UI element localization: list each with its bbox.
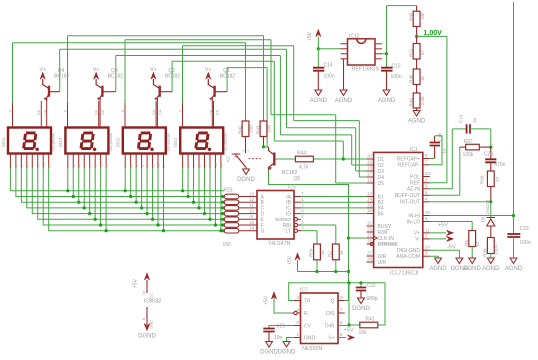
DIS3 segment pin 1 [89, 154, 91, 169]
wire Q2 collector to display pin [156, 101, 158, 128]
node 1.00V [415, 35, 418, 38]
R23 element 2 [221, 201, 224, 204]
wire Q2 base line [172, 60, 274, 62]
resistor R5 10 [469, 231, 476, 247]
capacitor C21 10n [269, 326, 294, 329]
DIS4 segment pin 1 [31, 154, 33, 169]
svg-text:12: 12 [249, 197, 254, 202]
IC1 pin 28 U/R [367, 261, 374, 263]
svg-text:CA: CA [95, 110, 99, 116]
node Q5 collector junction [262, 145, 265, 148]
IC7 pin 3 Q [338, 300, 345, 302]
resistor R43 150 [263, 36, 265, 121]
svg-text:7: 7 [67, 165, 71, 167]
svg-text:2: 2 [140, 165, 144, 167]
svg-text:9: 9 [36, 165, 40, 167]
svg-text:-5V: -5V [447, 245, 456, 251]
svg-text:680p: 680p [367, 296, 378, 302]
wire segment bus line 7 start [43, 168, 224, 225]
svg-text:AGND: AGND [505, 266, 523, 272]
IC IC1 ICL7135CJI [374, 152, 423, 267]
ground DGND of IC5G$2 [144, 324, 150, 331]
svg-text:DGND: DGND [237, 177, 255, 183]
DIS2 segment pin 1 [146, 154, 148, 169]
IC7 pin 4 R [292, 312, 294, 314]
DIS4 top-left pin stub [12, 103, 14, 128]
svg-text:100n: 100n [520, 240, 531, 246]
svg-text:AZ-IN: AZ-IN [407, 187, 420, 193]
R23 element 4 [221, 212, 224, 215]
IC5 output pin 4 [294, 218, 297, 221]
svg-text:1k: 1k [320, 249, 325, 255]
DIS2 segment pin 4 [135, 154, 137, 169]
IC12 pin stub [341, 53, 348, 55]
svg-text:7: 7 [124, 165, 128, 167]
R23 element 1 [221, 195, 224, 198]
DIS1 segment pin 2 [198, 154, 200, 169]
resistor R36 1k [416, 59, 418, 69]
resistor R22 47 [416, 36, 418, 43]
DIS4 common-anode top pin stub [40, 101, 42, 128]
IC1 pin 25 R/W [367, 231, 374, 233]
svg-text:15: 15 [367, 202, 372, 207]
svg-text:9: 9 [178, 110, 182, 112]
svg-text:R5: R5 [464, 240, 469, 246]
svg-text:GND: GND [150, 320, 154, 329]
wire Q4 base line [60, 48, 287, 50]
wire segment bus line 4 start [27, 168, 224, 208]
svg-text:1u: 1u [472, 117, 477, 123]
svg-text:10: 10 [42, 163, 46, 167]
wire IN-LO to R5 [430, 221, 472, 223]
svg-text:+5V: +5V [307, 31, 313, 41]
svg-text:100K: 100K [494, 243, 499, 255]
IC1 pin 6 BUFF-OUT [423, 194, 430, 196]
svg-text:BC182: BC182 [165, 73, 181, 79]
svg-text:R43: R43 [256, 125, 261, 134]
svg-text:DGND: DGND [138, 334, 156, 340]
svg-text:R36: R36 [408, 74, 413, 83]
ground AGND under R39 [490, 254, 492, 259]
svg-text:4: 4 [135, 165, 139, 167]
capacitor C14 100n [317, 49, 319, 68]
wire DIS2 pin 9 to bus [152, 168, 154, 219]
svg-text:10: 10 [99, 163, 103, 167]
svg-text:DIS1: DIS1 [173, 137, 178, 147]
IC7 pin 6 THR [338, 325, 345, 327]
wire R23 element 7 to IC5 pin 14 [239, 230, 257, 232]
resistor R2 1k [332, 244, 339, 260]
wire Q1 collector to display pin [211, 101, 213, 128]
svg-text:G: G [261, 229, 265, 235]
wire DIS3 pin 4 to bus [78, 168, 80, 202]
IC12 pin stub [341, 58, 348, 60]
svg-text:DIS: DIS [326, 311, 335, 317]
7-segment display DIS4 [8, 128, 51, 154]
svg-text:10n: 10n [274, 335, 283, 341]
transistor Q5 BC182 [273, 153, 275, 166]
svg-text:11: 11 [249, 203, 254, 208]
svg-text:R: R [304, 311, 308, 317]
DIS1 common-anode top pin stub [213, 101, 215, 128]
svg-text:100-prozak: 100-prozak [52, 133, 56, 152]
svg-text:9: 9 [8, 110, 12, 112]
IC12 pin stub [341, 43, 348, 45]
svg-text:150: 150 [223, 242, 232, 248]
resistor R44 4,7k [276, 158, 296, 160]
IC1 pin 24 DIGI-GND [423, 249, 430, 251]
svg-text:V+: V+ [328, 335, 334, 341]
ground DGND under K2 [245, 167, 247, 169]
wire segment bus line 8 start [49, 168, 225, 231]
capacitor C20 470n [490, 147, 492, 160]
ground DGND under C22 [358, 298, 365, 304]
supply +5V at 555 reset [274, 297, 292, 314]
svg-text:1N4148: 1N4148 [485, 199, 490, 214]
supply -5V arrow at V- pin [430, 238, 446, 240]
svg-text:11: 11 [425, 227, 430, 232]
DIS1 segment pin 9 [209, 154, 211, 169]
DIS1 segment pin 7 [182, 154, 184, 169]
DIS3 segment pin 9 [94, 154, 96, 169]
IC12 pin stub [341, 48, 348, 50]
DIS3 segment pin 10 [100, 154, 102, 169]
IC1 pin 5 AZ-IN [423, 188, 430, 190]
svg-text:16: 16 [367, 208, 372, 213]
svg-text:C14: C14 [324, 63, 333, 69]
svg-text:IC5G$2: IC5G$2 [144, 299, 161, 305]
svg-text:V-: V- [415, 237, 420, 243]
svg-text:CA: CA [44, 110, 48, 116]
wire DIS1 pin 1 to bus [203, 168, 205, 214]
IC1 pin 22 CLK-IN [367, 237, 374, 239]
IC1 pin 17 D4 [367, 176, 374, 178]
resistor R46 2,2k [416, 85, 418, 94]
DIS4 segment pin 2 [26, 154, 28, 169]
wire DIS3 pin 2 to bus [83, 168, 85, 208]
svg-text:4: 4 [192, 165, 196, 167]
svg-text:C18: C18 [437, 133, 442, 142]
svg-text:R59: R59 [309, 248, 314, 257]
wire R23 element 3 to IC5 pin 11 [239, 207, 257, 209]
svg-text:100-prozak: 100-prozak [224, 133, 228, 152]
DIS2 segment pin 5 [162, 154, 164, 169]
ground AGND under C14 [315, 90, 322, 96]
svg-text:74LS47N: 74LS47N [268, 241, 291, 247]
wire DIS2 pin 6 to bus [130, 168, 132, 197]
svg-text:AGND: AGND [429, 266, 447, 272]
ground DGND at pin 24 [430, 250, 460, 258]
svg-text:9: 9 [63, 110, 67, 112]
svg-text:R46: R46 [408, 98, 413, 107]
svg-text:BUFF-OUT: BUFF-OUT [395, 193, 420, 199]
svg-text:5: 5 [105, 165, 109, 167]
svg-text:GND: GND [304, 335, 316, 341]
svg-text:47: 47 [420, 49, 425, 55]
svg-text:4: 4 [20, 165, 24, 167]
ground DGND at 555 GND pin [287, 338, 294, 342]
7-segment display DIS1 [180, 128, 223, 154]
svg-text:AGND: AGND [408, 119, 426, 125]
svg-text:7: 7 [181, 165, 185, 167]
wire IC5 LT to R59 [301, 230, 317, 232]
wire segment bus line 5 start [32, 168, 224, 214]
svg-text:DIS3: DIS3 [58, 137, 63, 147]
svg-text:R40: R40 [408, 12, 413, 21]
DIS1 segment pin 4 [193, 154, 195, 169]
svg-text:BC182: BC182 [108, 73, 124, 79]
svg-text:CA: CA [158, 110, 162, 116]
svg-text:27: 27 [495, 176, 500, 182]
svg-text:16: 16 [142, 291, 146, 295]
wire DIS1 pin 2 to bus [198, 168, 200, 208]
IC5 output pin 1 [294, 201, 301, 203]
DIS2 top-left pin stub [124, 103, 126, 128]
svg-text:IC5: IC5 [288, 185, 296, 191]
svg-text:100n.: 100n. [391, 74, 404, 80]
IC1 pin 26 STROBE [367, 243, 374, 245]
wire DIS2 pin 10 to bus [157, 168, 159, 225]
R23 element 3 [221, 206, 224, 209]
ground AGND under R5 [471, 247, 473, 259]
svg-text:2: 2 [83, 165, 87, 167]
supply +5V rail lower [298, 271, 349, 273]
svg-text:CV: CV [304, 323, 312, 329]
wire digit-select bus line 3 (display1 anode) [13, 42, 246, 44]
DIS3 top-left pin stub [67, 103, 69, 128]
wire R23 element 5 to IC5 pin 9 [239, 218, 257, 220]
IC7 pin 8 V+ [338, 337, 345, 339]
wire DIS3 pin 6 to bus [72, 168, 74, 197]
svg-text:23: 23 [425, 171, 430, 176]
svg-text:DGND: DGND [260, 350, 278, 356]
DIS1 segment pin 1 [203, 154, 205, 169]
DIS4 segment pin 10 [42, 154, 44, 169]
svg-text:12: 12 [367, 178, 372, 183]
wire Q3 collector to display pin [99, 101, 101, 128]
svg-text:U/R: U/R [378, 260, 387, 266]
svg-text:+5V: +5V [438, 223, 448, 229]
wire 555 Q to CLK-IN [345, 300, 349, 302]
svg-text:470n: 470n [494, 162, 505, 168]
svg-text:R44: R44 [297, 151, 306, 157]
R23 element 6 [221, 223, 224, 226]
wire IC5 RBI to R2 [301, 224, 336, 226]
svg-text:AGND: AGND [482, 266, 500, 272]
IC5 output pin 6 [294, 213, 301, 215]
svg-text:2: 2 [198, 165, 202, 167]
svg-text:+5V: +5V [287, 255, 293, 265]
svg-text:1: 1 [88, 165, 92, 167]
svg-text:CA: CA [216, 110, 220, 116]
svg-text:DIS4: DIS4 [1, 137, 6, 147]
svg-text:22: 22 [367, 233, 372, 238]
svg-text:9: 9 [94, 165, 98, 167]
DIS1 segment pin 6 [187, 154, 189, 169]
wire 555 TR loop [289, 283, 385, 301]
capacitor C18 1u [430, 158, 435, 160]
svg-text:DGND: DGND [352, 306, 370, 312]
svg-text:20: 20 [367, 154, 372, 159]
svg-text:K2: K2 [226, 156, 231, 162]
svg-text:6: 6 [15, 165, 19, 167]
svg-text:TR: TR [304, 298, 311, 304]
svg-text:2,2k: 2,2k [420, 96, 425, 105]
IC5 output pin 2 [294, 207, 301, 209]
svg-text:9: 9 [151, 165, 155, 167]
DIS3 segment pin 5 [105, 154, 107, 169]
ground AGND under C12 [383, 90, 390, 96]
wire BUFF-OUT to R37 [430, 194, 460, 196]
svg-text:D6: D6 [480, 216, 485, 222]
DIS3 common-anode top pin stub [98, 101, 100, 128]
wire DIS3 pin 10 to bus [100, 168, 102, 225]
IC IC5 74LS47N [257, 191, 294, 240]
svg-text:18: 18 [367, 166, 372, 171]
IC IC7 NE555N [301, 293, 339, 344]
svg-text:14: 14 [249, 226, 254, 231]
wire digit-select bus line 1 (display2 anode) [68, 35, 264, 37]
svg-text:4: 4 [77, 165, 81, 167]
svg-text:POL: POL [410, 174, 420, 180]
svg-text:THR: THR [324, 323, 335, 329]
wire digit-select bus line 2 (display3 anode) [125, 39, 271, 41]
svg-text:100-prozak: 100-prozak [109, 133, 113, 152]
svg-text:5: 5 [220, 165, 224, 167]
resistor R40 10k [387, 5, 417, 7]
svg-text:14: 14 [367, 197, 372, 202]
node CLK junction [347, 236, 350, 239]
svg-text:DGND: DGND [278, 350, 296, 356]
DIS2 segment pin 2 [141, 154, 143, 169]
wire long vertical right [513, 2, 515, 216]
IC1 pin 4 INT-OUT [423, 201, 430, 203]
svg-text:R2: R2 [328, 251, 333, 257]
svg-text:R42: R42 [238, 125, 243, 134]
svg-text:C19: C19 [459, 114, 464, 123]
svg-text:100n: 100n [324, 74, 335, 80]
IC7 pin 2 TR [294, 300, 301, 302]
svg-text:CA: CA [37, 110, 41, 116]
node C19/R37/C20 junction [490, 129, 492, 147]
svg-text:IC7: IC7 [300, 288, 308, 294]
IC5 output pin 3 [294, 229, 297, 232]
svg-text:REF198GS: REF198GS [352, 67, 380, 73]
DIS4 segment pin 9 [37, 154, 39, 169]
resistor R38 27 [490, 162, 492, 171]
wire Q5 emitter to CLK net [269, 170, 349, 301]
supply +5V arrow at V+ pin [430, 232, 446, 234]
svg-text:13: 13 [367, 191, 372, 196]
svg-text:13: 13 [249, 191, 254, 196]
wire R23 element 6 to IC5 pin 15 [239, 224, 257, 226]
svg-text:6: 6 [129, 165, 133, 167]
DIS1 top-left pin stub [182, 103, 184, 128]
IC1 pin 2 REF [423, 182, 430, 184]
svg-text:CA: CA [152, 110, 156, 116]
svg-text:DGND: DGND [451, 266, 469, 272]
IC1 pin 13 B1 [367, 196, 374, 198]
svg-text:BI/RBO: BI/RBO [275, 217, 291, 222]
R23 element 7 [221, 229, 224, 232]
capacitor C23 100n [513, 216, 515, 235]
svg-text:R41: R41 [366, 317, 375, 323]
svg-text:IC12: IC12 [349, 34, 360, 40]
svg-text:+5V: +5V [264, 295, 270, 305]
DIS1 segment pin 5 [220, 154, 222, 169]
svg-text:R22: R22 [408, 48, 413, 57]
wire DIS2 pin 4 to bus [135, 168, 137, 202]
DIS2 segment pin 10 [157, 154, 159, 169]
IC1 pin 27 O/R [367, 255, 374, 257]
IC1 pin 8 REFCAP+ [423, 158, 430, 160]
wire Q1 base line [227, 67, 267, 69]
wire DIS1 pin 9 to bus [209, 168, 211, 219]
IC1 pin 3 ANA-COM [423, 255, 430, 257]
wire segment bus line 3 start [21, 168, 224, 202]
svg-text:10k: 10k [359, 330, 368, 336]
IC IC12 REF198GS [348, 39, 376, 65]
svg-text:STROBE: STROBE [378, 242, 399, 248]
wire AZ-IN to C19 [430, 188, 453, 190]
svg-text:BC182: BC182 [54, 73, 70, 79]
node TR loop junctions [347, 281, 350, 284]
wire IC12 out to C12/AGND [386, 6, 388, 54]
svg-text:AGND: AGND [335, 98, 353, 104]
svg-text:Q: Q [331, 298, 335, 304]
ground AGND under IC12 [343, 59, 345, 90]
svg-text:+5V: +5V [133, 278, 139, 288]
DIS2 segment pin 7 [124, 154, 126, 169]
svg-text:7: 7 [9, 165, 13, 167]
IC1 pin 7 REFCAP- [423, 164, 430, 166]
DIS3 segment pin 2 [83, 154, 85, 169]
IC1 pin 15 B4 [367, 207, 374, 209]
IC1 pin 14 B2 [367, 201, 374, 203]
diode D6 1N4148 [490, 202, 492, 218]
DIS2 common-anode top pin stub [155, 101, 157, 128]
resistor R41 10k [348, 283, 350, 325]
svg-text:AGND: AGND [378, 98, 396, 104]
svg-text:C22: C22 [367, 283, 376, 289]
wire R23 element 2 to IC5 pin 12 [239, 201, 257, 203]
ground DGND under C21 [266, 342, 273, 348]
wire segment bus line 1 start [10, 168, 224, 191]
wire DIS1 pin 10 to bus [214, 168, 216, 225]
svg-text:C21: C21 [276, 324, 285, 330]
svg-text:4,7k: 4,7k [299, 165, 309, 171]
svg-text:B6: B6 [378, 211, 384, 217]
svg-text:1: 1 [146, 165, 150, 167]
wire DIS1 pin 7 to bus [182, 168, 184, 191]
svg-text:REFCAP+: REFCAP+ [397, 156, 420, 162]
svg-text:24: 24 [425, 245, 430, 250]
IC1 pin 21 BUSY [367, 225, 374, 227]
svg-text:6: 6 [72, 165, 76, 167]
svg-text:17: 17 [367, 172, 372, 177]
svg-text:27: 27 [367, 251, 372, 256]
svg-text:Q5: Q5 [294, 176, 301, 182]
wire IN-HI to C23 [430, 215, 514, 217]
IC1 pin 20 D1 [367, 158, 374, 160]
IC1 pin 10 IN-HI [423, 215, 430, 217]
IC5 output pin 5 [294, 223, 297, 226]
IC1 pin 11 V+ [423, 232, 430, 234]
svg-text:10: 10 [475, 241, 480, 247]
svg-text:21: 21 [367, 221, 372, 226]
svg-text:+5V: +5V [344, 328, 354, 334]
svg-text:9: 9 [209, 165, 213, 167]
